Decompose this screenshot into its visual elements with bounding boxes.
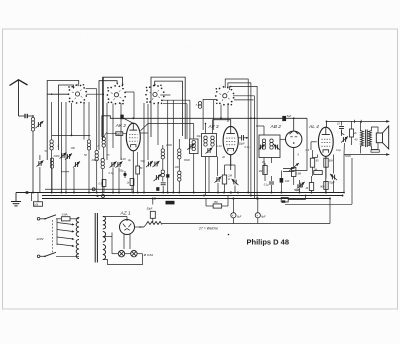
label AB2	[270, 124, 282, 130]
title Philips D 48	[247, 237, 290, 246]
wire box1 v6	[88, 102, 90, 140]
svg-text:AZ 1: AZ 1	[120, 211, 131, 217]
svg-text:2000: 2000	[165, 143, 172, 147]
switch link	[52, 220, 54, 253]
chassis bus	[16, 192, 344, 194]
wire V3 left	[280, 138, 286, 140]
coil L15	[204, 136, 207, 146]
svg-text:+: +	[256, 214, 258, 218]
wire tick b	[360, 120, 362, 123]
svg-text:8: 8	[58, 144, 60, 148]
capacitor C31 black	[166, 174, 169, 177]
transformer T2 core	[365, 130, 367, 148]
svg-text:50: 50	[84, 153, 87, 157]
wire box3 v4	[167, 100, 169, 193]
capacitor C22 70u	[329, 155, 337, 193]
wire sec HT top	[103, 217, 127, 220]
coil L14	[196, 102, 202, 109]
coil box K2 outline	[99, 77, 123, 150]
coil L11 osc	[161, 170, 164, 182]
label AL4	[308, 124, 319, 130]
tube V4 AL4	[318, 127, 333, 156]
capacitor C14	[232, 165, 239, 193]
wire box3 v5	[172, 100, 174, 193]
wire heater loop	[103, 254, 143, 265]
lamp E2	[125, 251, 143, 257]
trimmer C4b	[73, 161, 80, 192]
wire box1 v5	[83, 103, 85, 140]
wire S1 right b	[86, 94, 104, 96]
wire box1 v3	[65, 102, 67, 152]
resistor R17	[281, 195, 306, 203]
coil box K1 outline	[47, 81, 78, 161]
resistor R9 1M	[314, 169, 323, 175]
coil L5	[95, 151, 98, 193]
label weiche	[198, 227, 218, 231]
wire AZ1 out	[135, 226, 144, 228]
svg-text:Ω: Ω	[228, 177, 230, 181]
coil L8 osc	[161, 145, 164, 170]
black bar net	[166, 201, 175, 205]
speaker LS1	[376, 126, 388, 149]
wire box1 v1	[51, 102, 53, 140]
svg-text:25: 25	[106, 153, 110, 157]
terminal arrow top	[386, 120, 389, 123]
svg-text:8μF: 8μF	[261, 216, 266, 219]
svg-text:50μ: 50μ	[120, 170, 125, 173]
svg-text:220V: 220V	[36, 237, 45, 241]
fuse F1	[56, 212, 76, 221]
svg-text:AB 2: AB 2	[270, 124, 282, 130]
wire S4 right b	[234, 99, 254, 101]
svg-text:150: 150	[214, 201, 219, 204]
wire box3 v1	[143, 103, 145, 193]
wire box1 v4	[71, 103, 73, 135]
resistor R7 65	[310, 150, 319, 176]
resistor R11 44M	[306, 176, 314, 193]
coil L2	[50, 140, 53, 193]
wire S4 down	[220, 105, 222, 120]
mark dot	[228, 234, 230, 236]
svg-text:10μF: 10μF	[239, 141, 245, 145]
coil box K4 outline	[203, 99, 216, 130]
grid arrow S2	[116, 83, 123, 86]
svg-text:0.3: 0.3	[306, 148, 310, 152]
bus top right	[327, 120, 390, 122]
switch S5 bottom	[44, 252, 56, 257]
trimmer C6	[116, 148, 123, 193]
wire IF3 down	[264, 158, 272, 175]
wire V2 down	[230, 155, 232, 170]
transformer T2 secondary	[368, 131, 371, 147]
tube V1 AK2	[126, 123, 140, 151]
wire speaker bottom	[371, 143, 378, 150]
trimmer C16b	[274, 144, 280, 149]
band switch S3	[145, 84, 164, 104]
label lamps	[143, 253, 153, 257]
potentiometer P1	[283, 163, 302, 176]
wire ant to S1	[47, 93, 69, 95]
svg-text:100: 100	[175, 165, 180, 169]
label mains	[36, 237, 45, 241]
resistor R15 1k	[127, 179, 134, 193]
svg-text:10: 10	[337, 123, 340, 126]
trimmer C4	[61, 152, 72, 193]
wire IF2 down	[206, 157, 210, 196]
trimmer C4c	[37, 155, 44, 193]
trimmer C16a	[259, 144, 265, 149]
svg-text:SCHALTPLAN PHILIPS D48 EMPFANG: SCHALTPLAN PHILIPS D48 EMPFANGER RUNDFUN…	[36, 36, 279, 42]
wire AZ1 filament	[112, 234, 130, 254]
svg-text:10k: 10k	[34, 202, 39, 206]
capacitor C30 black	[156, 187, 159, 191]
capacitor C23 8u	[231, 199, 242, 224]
capacitor C28 black	[120, 115, 123, 120]
bus decoupling	[162, 199, 330, 224]
capacitor C18	[280, 171, 290, 193]
wire box2 v3	[112, 104, 114, 149]
wire box3 v2	[147, 104, 149, 160]
label AF3	[208, 124, 219, 130]
trimmer C9	[154, 174, 162, 181]
svg-text:30: 30	[222, 155, 225, 159]
transformer T1 primary	[76, 217, 80, 259]
wire AK2 anode to IF1	[141, 123, 207, 134]
antenna	[10, 80, 28, 116]
svg-text:50: 50	[140, 167, 143, 170]
capacitor C13 10u	[238, 135, 247, 145]
svg-text:WELLENBEREICH LANG MITTEL KURZ: WELLENBEREICH LANG MITTEL KURZ NETZANSCH…	[36, 45, 275, 51]
trimmer C2 on L1	[36, 121, 44, 128]
svg-text:2k: 2k	[353, 132, 357, 135]
svg-text:Philips D 48: Philips D 48	[247, 237, 290, 246]
bus AVC left tie	[45, 188, 133, 198]
tube V2 AF3	[223, 126, 238, 154]
svg-text:25: 25	[261, 160, 265, 164]
capacitor C17	[264, 176, 274, 193]
svg-text:1-10: 1-10	[217, 144, 223, 148]
wire T2 prim bottom	[359, 145, 361, 153]
wire S3 right a	[160, 94, 170, 96]
mains terminal top	[37, 218, 45, 221]
trimmer C3	[60, 152, 67, 193]
wire box2 v4	[120, 103, 122, 148]
ghost scan text row1	[36, 36, 279, 42]
wire tick a	[354, 120, 356, 123]
transformer T1 core	[95, 213, 97, 263]
wire sec HT bottom	[103, 233, 112, 237]
wire V4 down	[325, 156, 327, 193]
coil L18	[270, 139, 273, 149]
wire IF1a down	[193, 154, 195, 193]
resistor R3 2M	[222, 165, 232, 193]
svg-text:AK 2: AK 2	[115, 123, 127, 128]
loop S4 a	[225, 79, 248, 193]
svg-text:100: 100	[285, 180, 290, 183]
loop S4 c	[230, 86, 258, 198]
band switch S2	[107, 85, 126, 105]
mains terminal bottom	[37, 255, 45, 258]
wire antenna to C1	[19, 115, 25, 117]
svg-text:0.1μ: 0.1μ	[336, 148, 342, 152]
svg-text:3-30: 3-30	[121, 157, 127, 161]
resistor R10 800	[320, 181, 328, 192]
resistor R5 1M	[259, 163, 267, 181]
svg-text:7.4: 7.4	[196, 103, 200, 107]
wire box1 v2	[60, 102, 62, 152]
svg-text:50μ: 50μ	[141, 159, 146, 163]
svg-text:40: 40	[355, 138, 358, 142]
band switch S1	[68, 84, 87, 104]
tube V3 AB2	[286, 131, 302, 147]
primary tap arrows	[57, 219, 75, 247]
svg-text:0.1μ: 0.1μ	[245, 145, 251, 149]
wire V1 top cap	[124, 118, 134, 123]
coil L1 antenna	[31, 118, 34, 193]
wire speaker top	[371, 127, 378, 133]
wire V2 top	[213, 120, 231, 134]
resistor R2 50	[107, 132, 127, 136]
label AK2	[115, 123, 127, 128]
bus B+ lower	[42, 198, 330, 200]
capacitor C1 antenna	[25, 114, 27, 118]
coil box K3 outline	[151, 77, 185, 139]
svg-text:800: 800	[320, 186, 325, 189]
svg-text:65: 65	[316, 160, 319, 163]
outer right vertical K1	[103, 77, 105, 135]
wire V3 top	[293, 117, 295, 131]
svg-text:2000: 2000	[91, 158, 98, 162]
wire mains bottom	[56, 255, 76, 257]
wire V4 grid	[311, 142, 317, 150]
IF2 coil box	[202, 134, 217, 157]
svg-text:50Ω: 50Ω	[116, 134, 121, 136]
svg-text:6: 6	[298, 153, 300, 157]
wire AL4 net	[285, 155, 352, 205]
svg-text:+: +	[232, 214, 234, 218]
lamp E1	[112, 251, 125, 257]
tube V5 AZ1	[120, 219, 135, 234]
wire S4 down2	[227, 105, 229, 123]
trimmer C5	[110, 156, 117, 193]
trimmer C29	[215, 157, 222, 194]
svg-text:44: 44	[306, 187, 309, 190]
wire IF1a up	[193, 124, 195, 140]
svg-text:1k: 1k	[127, 182, 130, 185]
svg-text:AL 4: AL 4	[308, 124, 319, 130]
svg-text:8μF: 8μF	[237, 216, 242, 219]
component value labels	[45, 134, 358, 175]
transformer T2 primary	[360, 131, 363, 147]
grid arrow S3	[154, 84, 156, 86]
wire T2 prim top	[359, 121, 361, 131]
trimmer C12	[206, 147, 213, 153]
IF1 coil box A	[190, 139, 199, 154]
resistor R6	[292, 160, 296, 185]
svg-text:100: 100	[71, 146, 76, 150]
IF3 coil box	[259, 135, 280, 158]
wire S3 right b	[161, 100, 190, 139]
loop S4 b	[228, 83, 251, 196]
wire box2 v2	[106, 103, 108, 160]
coil L3	[87, 140, 90, 193]
svg-text:4μ: 4μ	[128, 158, 131, 162]
bus B+ upper	[42, 195, 343, 197]
choke L19	[140, 222, 162, 228]
capacitor C19 50u	[294, 180, 302, 193]
svg-text:0.1μ: 0.1μ	[109, 171, 115, 175]
capacitor C15 5u	[282, 114, 291, 121]
wire box3 v3	[157, 104, 159, 146]
tie line box1	[52, 135, 91, 137]
trimmer C7	[146, 161, 153, 167]
svg-text:0.5M: 0.5M	[296, 173, 302, 176]
label AZ1	[120, 211, 131, 217]
grid arrow S1	[73, 84, 79, 89]
resistor R18	[350, 121, 358, 145]
svg-text:5μF: 5μF	[287, 114, 292, 118]
trimmer C11	[188, 143, 195, 149]
wire V2 tie	[225, 155, 236, 166]
coil L4	[50, 158, 53, 193]
terminal circle	[26, 191, 32, 201]
capacitor C27 50u	[296, 182, 305, 192]
svg-text:27 = Weiche: 27 = Weiche	[198, 227, 218, 231]
capacitor C25 30u	[147, 199, 156, 223]
svg-text:5000: 5000	[345, 154, 351, 158]
ground	[11, 193, 21, 206]
wire S4 right a	[233, 96, 254, 199]
wire S2 right	[125, 92, 134, 118]
capacitor C24 8u	[255, 199, 266, 224]
svg-text:50k: 50k	[329, 160, 334, 163]
terminal arrow bottom	[386, 153, 389, 156]
svg-text:30μ: 30μ	[197, 134, 202, 138]
svg-text:70μF: 70μF	[329, 182, 335, 185]
svg-text:0.8A: 0.8A	[62, 212, 68, 216]
coil L6b	[102, 132, 107, 159]
svg-text:1M: 1M	[314, 169, 318, 172]
resistor R16	[136, 152, 143, 193]
capacitor C26 50u	[120, 170, 127, 179]
bus junction dots	[32, 117, 343, 199]
svg-text:2000: 2000	[53, 154, 60, 158]
svg-text:8000: 8000	[184, 158, 190, 162]
resistor R8 50k	[324, 157, 334, 178]
resistor R14	[99, 170, 106, 193]
coil L17	[262, 139, 265, 149]
resistor R1 10k	[34, 193, 43, 207]
wire top bus AK2	[102, 116, 307, 171]
wire V1 cathode down	[132, 151, 134, 193]
coil L16	[211, 136, 214, 146]
svg-text:30μF: 30μF	[147, 207, 153, 211]
wire S1 right a	[86, 89, 97, 150]
capacitor C10 padder	[161, 183, 166, 193]
wire V4 top	[326, 121, 328, 128]
wire C1 to L1	[28, 115, 34, 117]
switch S5 top	[44, 215, 56, 220]
svg-text:50μ: 50μ	[296, 189, 301, 192]
wire S3 right c	[163, 104, 187, 139]
svg-text:Ø 0.8A: Ø 0.8A	[143, 253, 153, 257]
trimmer C8	[153, 161, 160, 167]
wire IF3 up	[256, 126, 264, 135]
transformer T1 secondary	[103, 217, 106, 260]
coil L10 osc	[178, 159, 181, 193]
trimmer C21 tone	[341, 130, 348, 155]
wire V1 anode right	[140, 133, 148, 140]
svg-text:0.1μ: 0.1μ	[264, 183, 269, 186]
capacitor C20	[337, 121, 344, 136]
ghost scan text row2	[36, 45, 275, 51]
coil L6	[101, 159, 104, 193]
coil L12	[192, 141, 195, 151]
band switch S4	[215, 86, 234, 106]
resistor R12 150	[206, 196, 228, 209]
svg-text:AF 3: AF 3	[208, 124, 219, 130]
bus speaker bottom	[344, 150, 389, 155]
wire V3 down	[293, 148, 295, 161]
coil L9 osc	[178, 139, 181, 159]
